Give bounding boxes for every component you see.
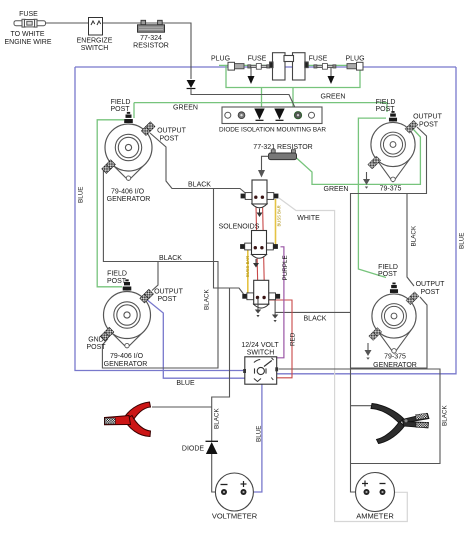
svg-text:AMMETER: AMMETER [356,512,394,521]
svg-text:POST: POST [378,271,398,278]
svg-text:SOLENOIDS: SOLENOIDS [219,224,260,231]
wire black energize circuit [46,22,89,24]
svg-text:POST: POST [420,289,440,296]
wire black G1 output to solenoid1 [150,133,246,194]
generator G3 bottom-left 79-406 [100,279,153,348]
svg-text:BLACK: BLACK [188,182,211,189]
svg-text:79-406 I/O: 79-406 I/O [110,353,144,360]
solenoid block top center [270,53,309,80]
svg-text:BLUE: BLUE [176,380,195,387]
wire black branch to solenoid3 left [218,288,244,294]
svg-text:SWITCH: SWITCH [247,350,275,357]
svg-text:GREEN: GREEN [321,94,346,101]
resistor 77-321 [269,150,297,160]
svg-text:TO WHITE: TO WHITE [10,31,44,38]
svg-text:BLACK: BLACK [159,255,182,262]
svg-text:POST: POST [110,106,130,113]
svg-text:BLACK: BLACK [304,316,327,323]
svg-text:BLUE: BLUE [256,426,263,442]
svg-text:FUSE: FUSE [19,11,38,18]
fuse F3 right small [314,64,336,70]
svg-text:BLACK: BLACK [204,289,211,310]
svg-text:POST: POST [157,296,177,303]
svg-text:RED: RED [290,332,297,346]
svg-text:WHITE: WHITE [297,215,320,222]
svg-text:PURPLE: PURPLE [282,255,289,280]
wire yellow buss bar 2 [247,250,249,295]
svg-text:OUTPUT: OUTPUT [413,114,443,121]
wire black voltmeter branch [212,189,230,442]
wire black switch right to ammeter plus [279,369,441,464]
svg-text:79-375: 79-375 [384,354,406,361]
svg-text:POST: POST [107,278,127,285]
wire green plug drops to mounting bar [226,65,360,87]
wire black diode to voltmeter minus [212,454,221,492]
svg-text:77-324: 77-324 [140,35,162,42]
wire green 77-321 resistor to G2 output [297,130,421,185]
wire black drop to G3 output post [152,262,158,291]
svg-text:GREEN: GREEN [173,105,198,112]
svg-text:BLUE: BLUE [459,233,466,249]
svg-text:OUTPUT: OUTPUT [154,289,184,296]
svg-text:POST: POST [419,122,439,129]
svg-text:BLACK: BLACK [411,225,418,246]
diode isolation mounting bar [222,107,322,124]
wire black drop arrow left of block [250,67,252,76]
svg-text:79-375: 79-375 [380,186,402,193]
wire white solenoid1 to ammeter minus [279,198,407,522]
svg-text:OUTPUT: OUTPUT [416,281,446,288]
wire green rail top field posts [134,102,387,104]
wire blue G3 output to switch [146,299,245,378]
svg-text:FUSE: FUSE [248,56,267,63]
generator G1 top-left 79-406 [102,112,155,181]
svg-text:BLUE: BLUE [78,187,85,203]
svg-text:FIELD: FIELD [107,271,127,278]
svg-text:PLUG: PLUG [211,56,230,63]
svg-text:RESISTOR: RESISTOR [133,43,169,50]
svg-text:BUSS BAR: BUSS BAR [245,256,250,277]
ground G2 lower post [366,172,368,179]
svg-text:ENGINE WIRE: ENGINE WIRE [4,39,51,46]
wire green through plugs right [307,64,363,66]
fuse F1 top left [14,19,46,27]
wire yellow buss bar 1 [275,199,277,246]
wire green drop to G2 field post [386,103,388,112]
svg-text:VOLTMETER: VOLTMETER [212,512,258,521]
wire black diode to mounting bar [191,89,297,113]
svg-text:GENERATOR: GENERATOR [107,196,151,203]
wire blue box left into switch [75,67,245,371]
wire red solenoid3 to switch right [265,296,293,378]
voltmeter [215,473,253,511]
wire blue box top [75,66,456,68]
svg-text:DIODE: DIODE [182,446,205,453]
energize switch S1 [89,18,103,36]
wire red solenoid coil bus right [262,197,264,296]
switch 12/24 volt [243,357,278,384]
svg-text:GND: GND [88,337,104,344]
wire black red clamp tee [152,406,212,408]
wire green drop to G1 field post [133,103,135,118]
wire black clamp tail [351,405,373,407]
wire black switch to resistor to corner [102,23,191,79]
red battery clamp [105,402,151,437]
svg-text:DIODE ISOLATION MOUNTING BAR: DIODE ISOLATION MOUNTING BAR [219,127,326,134]
wire gray 77-321 to solenoid1 arrow [262,156,269,170]
plug P2 right [347,62,363,70]
wire blue switch right to box right [277,67,456,374]
svg-text:77-321 RESISTOR: 77-321 RESISTOR [253,144,312,151]
svg-text:ENERGIZE: ENERGIZE [77,38,113,45]
svg-text:BLACK: BLACK [214,408,221,429]
wire red solenoid coil bus left [256,197,258,297]
wire green through plugs left [219,64,272,66]
svg-text:POST: POST [375,106,395,113]
svg-text:FIELD: FIELD [111,99,131,106]
svg-text:79-406 I/O: 79-406 I/O [111,189,145,196]
wire green G1 field to G3 field [97,120,124,287]
ground solenoid3 right [274,312,276,314]
svg-text:12/24 VOLT: 12/24 VOLT [241,342,279,349]
svg-text:GREEN: GREEN [324,186,349,193]
wire black G2 output down around [351,127,427,492]
plug P1 left [228,62,244,70]
resistor 77-324 [138,20,165,32]
svg-text:FIELD: FIELD [376,99,396,106]
svg-text:GENERATOR: GENERATOR [104,361,148,368]
svg-text:SWITCH: SWITCH [81,45,109,52]
generator G2 top-right 79-375 [368,111,418,182]
ground G4 lower post [367,343,369,350]
wire purple solenoid2 to switch [277,247,284,358]
solenoid SOL1 [241,180,279,217]
svg-text:POST: POST [159,136,179,143]
svg-text:BLACK: BLACK [442,405,449,426]
solenoid SOL3 [242,280,280,308]
diode D1 energize [187,80,196,88]
wire blue switch bottom to voltmeter plus [247,384,262,492]
ammeter [356,473,395,512]
wire green drop into bar 1 [261,88,263,108]
wire green drop into bar 2 [292,88,294,108]
solenoid SOL2 [240,231,278,268]
wire black solenoid3 right to right bus [275,299,351,312]
diode D2 voltmeter [206,440,219,442]
svg-text:PLUG: PLUG [345,56,364,63]
wire black G1 lower post bus around G3 [102,169,218,368]
svg-text:FIELD: FIELD [378,264,398,271]
wire black branch to G4 output [407,194,414,287]
svg-text:GENERATOR: GENERATOR [373,362,417,369]
svg-text:POST: POST [86,344,106,351]
wire green G2 field to G4 field [358,118,386,277]
generator G4 bottom-right 79-375 [369,283,419,354]
svg-text:FUSE: FUSE [309,56,328,63]
svg-text:BUSS BAR: BUSS BAR [277,205,282,226]
black battery clamp [371,404,429,444]
wire black drop arrow right of block [330,67,332,76]
fuse F2 left small [248,64,270,70]
svg-text:OUTPUT: OUTPUT [157,128,187,135]
wire black G4 output loop [351,297,428,368]
ground solenoid3 left [257,298,259,310]
